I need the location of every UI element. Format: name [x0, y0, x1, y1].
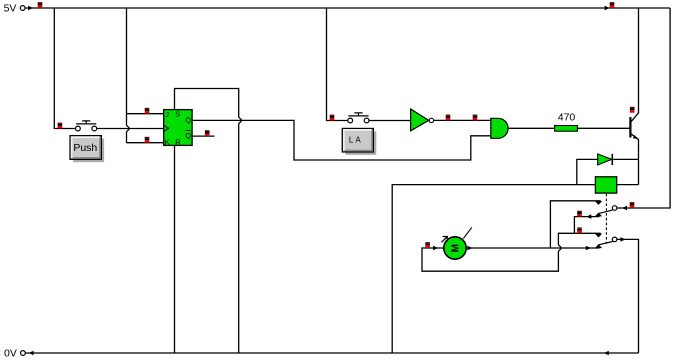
0V terminal arrow [29, 351, 34, 356]
pin on top rail right [610, 2, 615, 8]
svg-text:R: R [175, 138, 181, 147]
wire 5V rail to push switch SW1 [54, 8, 75, 129]
relay pole1 lower junction arrow [586, 214, 591, 219]
wire emitter down to relay coil [631, 134, 639, 185]
wire 0V bottom rail [25, 352, 638, 354]
relay pole2 pivot [612, 237, 617, 242]
motor left junction arrow [433, 246, 438, 251]
NOT gate [411, 109, 434, 131]
relay pole1 lower fixed contact [595, 213, 602, 217]
relay pole2 blade [598, 242, 612, 245]
wire pole1 upper fixed contact down to motor-right wire [550, 201, 600, 248]
wire right side rail down to relay pole1 common [617, 8, 670, 208]
pin at pole1 lower contact [577, 211, 582, 217]
wire 5V rail down to switch SW2 [327, 8, 348, 121]
wire Q output to AND gate input 2 [192, 120, 491, 160]
pin at switch SW1 [58, 123, 63, 129]
wire pole1 lower fixed contact down to pole2 upper wire [574, 217, 599, 234]
0V terminal circle [21, 351, 26, 356]
wire SW2 to NOT gate [369, 120, 410, 122]
pin at J input [145, 108, 150, 114]
relay pole1 upper fixed contact [595, 201, 602, 205]
5V terminal circle [20, 6, 25, 11]
relay pole2 common arrow [620, 237, 625, 242]
wire SW1 to clock input [97, 128, 164, 130]
wire coil right to emitter [617, 184, 639, 186]
5V terminal arrow [28, 6, 33, 11]
wire to K input [127, 142, 164, 144]
wire R input down to 0V rail [174, 145, 176, 353]
pin at motor left [425, 242, 430, 248]
svg-text:M: M [450, 244, 461, 252]
relay pole2 lower junction arrow [586, 246, 591, 251]
wire collector up to 5V rail [631, 8, 639, 122]
svg-text:S: S [175, 110, 180, 119]
svg-text:J: J [165, 110, 169, 119]
pin at K input [145, 137, 150, 143]
diode D1 [598, 154, 613, 165]
wire NOT gate output to AND gate input 1 [434, 119, 491, 121]
relay pole1 blade [598, 210, 612, 214]
wire diode left branch [577, 159, 598, 184]
motor M1 [441, 227, 471, 259]
resistor R1 470 [555, 126, 578, 132]
relay pole1 common arrow [622, 206, 627, 211]
push button "Push" [70, 136, 104, 163]
wire J/K branch vertical with hop over clock wire [127, 8, 130, 143]
push button "LA" [342, 129, 376, 155]
junction arrow on top rail [605, 6, 610, 11]
JK flip-flop U1 [164, 110, 192, 147]
relay pole1 pivot [612, 206, 617, 211]
pin at Q-bar [205, 130, 210, 136]
junction arrow on bottom rail [604, 351, 609, 356]
wire relay pole2 common down to 0V rail [617, 239, 639, 353]
wire to J input [127, 113, 164, 115]
svg-text:Push: Push [73, 142, 97, 154]
relay pole2 upper fixed contact [595, 234, 602, 238]
svg-text:470: 470 [558, 111, 576, 123]
svg-text:K: K [165, 137, 170, 146]
svg-text:Q: Q [185, 131, 191, 140]
wire 5V top rail [25, 7, 670, 9]
svg-text:L A: L A [349, 135, 362, 144]
wire S loop: box top up, across, down to 0V with hop over Q wire [175, 89, 242, 354]
pin at switch SW2 [330, 115, 335, 121]
pin at pole1 common [630, 202, 635, 208]
wire Q-bar stub [192, 135, 214, 137]
wire AND output to resistor [508, 127, 554, 129]
pin at transistor collector [630, 107, 635, 113]
pin after NOT gate [446, 115, 451, 121]
wire motor right to pole2 lower fixed contact [466, 247, 599, 249]
wire pole2 upper fixed contact down with hop, to motor left [422, 233, 601, 271]
wire coil left to 0V rail [392, 185, 595, 353]
relay pole2 lower fixed contact [595, 244, 602, 248]
wire diode right branch [613, 158, 638, 160]
svg-text:5V: 5V [4, 2, 17, 14]
relay mechanical dashed link [605, 194, 607, 244]
push switch SW2 [348, 113, 369, 123]
pin before AND gate [473, 115, 478, 121]
svg-text:Q: Q [185, 115, 191, 124]
push switch SW1 [76, 121, 97, 131]
pin at pole2 upper contact [577, 227, 582, 233]
relay coil [595, 177, 616, 193]
pin on top rail left [38, 2, 43, 8]
motor right junction arrow [467, 246, 472, 251]
wire resistor to transistor base [577, 127, 629, 129]
AND gate [491, 118, 508, 138]
svg-text:0V: 0V [4, 347, 17, 359]
transistor Q1 [630, 117, 637, 139]
